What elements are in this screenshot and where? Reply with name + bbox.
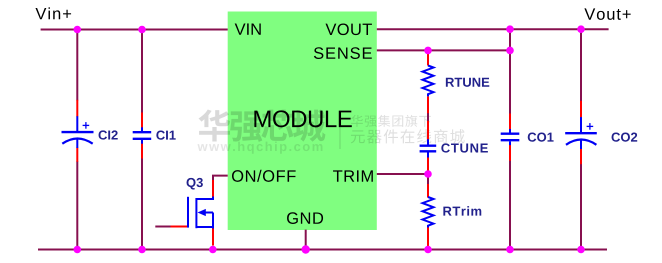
wire ON/OFF: [213, 176, 228, 181]
wire CO1 upper: [509, 29, 511, 114]
ref label RTrim: [443, 206, 481, 215]
pin label SENSE: [314, 47, 372, 59]
pin CO2 top: [580, 101, 582, 118]
pin CI1 bottom: [141, 144, 143, 159]
pin CTUNE bottom to TRIM node: [427, 157, 429, 177]
pin Q3 drain: [212, 180, 214, 197]
capacitor CI1: [133, 127, 152, 143]
wire CI2 upper: [76, 30, 78, 101]
junction SENSE-RTUNE: [424, 47, 432, 55]
junction rail-CO1: [506, 246, 514, 254]
junction rail-CI1: [138, 246, 146, 254]
pin CO1 top: [509, 114, 511, 130]
junction Vin-CI1: [138, 26, 146, 34]
pin label ON/OFF: [232, 170, 296, 182]
junction VOUT-CO2: [577, 25, 585, 33]
resistor RTUNE: [423, 66, 434, 97]
wire CO2 upper: [580, 29, 582, 101]
watermark divider line: [339, 114, 341, 149]
junction Vin-CI2: [74, 26, 82, 34]
watermark logo 华强芯城: [198, 109, 325, 141]
pin RTrim bottom: [427, 227, 429, 250]
wire TRIM: [377, 173, 428, 175]
wire CO2 lower: [580, 164, 582, 250]
pin RTrim top: [427, 184, 429, 198]
pin Q3 gate: [171, 226, 188, 228]
ref label Q3: [187, 178, 203, 190]
watermark www.hqchip.com: [197, 142, 322, 154]
pin CO2 bottom: [580, 149, 582, 165]
ref label CI1: [156, 131, 175, 140]
pin CI1 top: [141, 113, 143, 128]
pin RTUNE top: [427, 50, 429, 65]
wire CI1 upper: [141, 30, 143, 114]
watermark 元器件在线商城: [351, 129, 465, 143]
junction rail-Q3: [209, 246, 217, 254]
wire VOUT rail: [377, 28, 609, 30]
wire Vin+ rail: [41, 29, 228, 31]
pin CO1 bottom: [509, 145, 511, 161]
module name MODULE: [254, 110, 351, 127]
pin label TRIM: [333, 170, 373, 181]
pin CI2 bottom: [76, 148, 78, 162]
pin CTUNE top: [427, 121, 429, 140]
wire Q3 gate stub: [155, 226, 171, 228]
pin label VIN: [235, 23, 261, 34]
junction SENSE-CO1: [506, 47, 514, 55]
pin CI2 top: [76, 100, 78, 117]
junction rail-GND: [302, 245, 310, 253]
capacitor CO1: [501, 129, 520, 145]
pin label VOUT: [325, 23, 371, 35]
ref label CTUNE: [441, 143, 488, 152]
capacitor CI2 (polarized): [62, 116, 94, 148]
wire SENSE: [377, 49, 510, 51]
ref label CI2: [99, 130, 118, 139]
pin label GND: [287, 212, 323, 224]
junction rail-CI2: [74, 246, 82, 254]
transistor Q3 (NMOS): [188, 197, 213, 229]
module U1 body: [228, 12, 377, 231]
ref label CO1: [528, 133, 554, 142]
ref label RTUNE: [446, 78, 489, 87]
wire CI2 lower: [76, 161, 78, 249]
capacitor CTUNE: [420, 139, 437, 157]
wire RTUNE-CTUNE: [427, 113, 429, 122]
wire CI1 lower: [141, 158, 143, 250]
ref label CO2: [612, 133, 638, 142]
resistor RTrim: [423, 197, 434, 228]
junction TRIM-node: [424, 170, 432, 178]
wire ground rail: [38, 249, 607, 251]
wire GND pin: [305, 230, 307, 250]
watermark 华强集团旗下: [351, 115, 431, 127]
pin Q3 source: [212, 228, 214, 245]
node label Vout+: [584, 8, 630, 20]
capacitor CO2 (polarized): [565, 117, 597, 149]
wire CO1 lower: [509, 160, 511, 249]
junction VOUT-CO1: [506, 25, 514, 33]
junction rail-RTrim: [424, 246, 432, 254]
node label Vin+: [35, 7, 71, 19]
junction rail-CO2: [577, 246, 585, 254]
wire TRIM node stub: [427, 174, 429, 185]
pin RTUNE bottom: [427, 96, 429, 113]
